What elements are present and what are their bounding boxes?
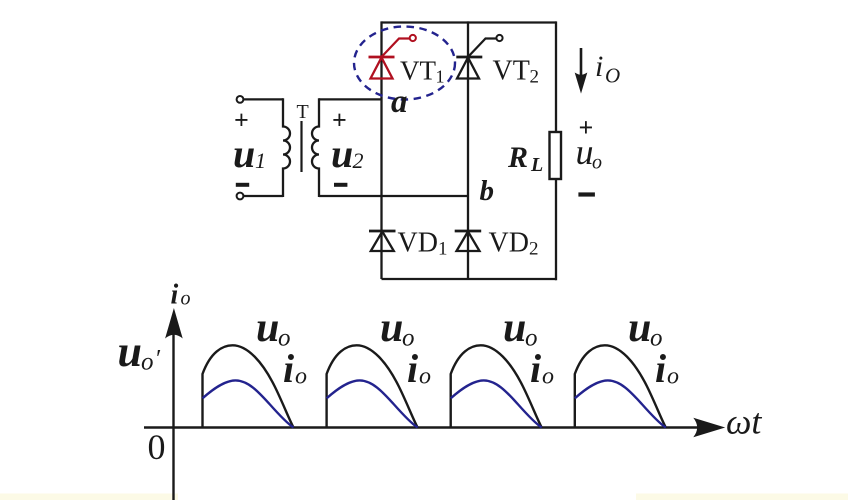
svg-text:1: 1 bbox=[255, 148, 266, 173]
wire: secondary top lead to node a bbox=[319, 98, 382, 100]
svg-text:u: u bbox=[503, 305, 526, 351]
waveform pulse 2: uo curve (black) bbox=[327, 345, 418, 427]
wire: right rail bbox=[555, 21, 557, 280]
svg-text:′: ′ bbox=[155, 346, 161, 373]
svg-text:L: L bbox=[530, 154, 543, 176]
waveform: horizontal axis arrowhead bbox=[693, 418, 725, 437]
svg-text:1: 1 bbox=[438, 239, 448, 260]
wire: bridge right leg (node b line) bbox=[467, 21, 469, 279]
waveform pulse 4: io curve (blue) bbox=[575, 380, 666, 427]
diode VD2 bbox=[455, 231, 482, 251]
label VT1 bbox=[400, 56, 445, 87]
label RL bbox=[507, 141, 543, 176]
svg-text:2: 2 bbox=[529, 239, 539, 260]
svg-text:i: i bbox=[530, 346, 541, 391]
svg-text:u: u bbox=[256, 305, 279, 351]
svg-text:ωt: ωt bbox=[726, 402, 762, 442]
label VD1 bbox=[398, 228, 448, 260]
waveform pulse 3: uo curve (black) bbox=[451, 345, 542, 427]
label u1 bbox=[233, 131, 266, 176]
label io (axis) bbox=[171, 280, 191, 311]
svg-text:u: u bbox=[233, 131, 255, 176]
svg-text:u: u bbox=[118, 327, 142, 376]
svg-text:2: 2 bbox=[530, 67, 540, 88]
svg-text:i: i bbox=[171, 280, 179, 311]
transformer T primary winding bbox=[283, 98, 290, 197]
transformer T primary terminal circle (bottom) bbox=[237, 193, 244, 200]
svg-text:0: 0 bbox=[148, 427, 166, 467]
svg-text:i: i bbox=[283, 346, 294, 391]
svg-text:o: o bbox=[542, 364, 554, 390]
svg-text:VT: VT bbox=[400, 56, 436, 86]
svg-text:i: i bbox=[407, 346, 418, 391]
arrow iO (output current) bbox=[576, 48, 587, 92]
wire: bridge left leg (node a line) bbox=[380, 21, 382, 279]
label io (pulse 1) bbox=[283, 346, 307, 391]
transformer T secondary winding bbox=[312, 98, 319, 197]
wire: secondary bottom lead to node b bbox=[319, 195, 468, 197]
svg-text:VD: VD bbox=[489, 228, 529, 259]
svg-text:u: u bbox=[576, 132, 594, 172]
svg-text:i: i bbox=[595, 50, 603, 83]
svg-text:u: u bbox=[628, 305, 651, 351]
thyristor VT2 bbox=[456, 35, 502, 79]
transformer core bbox=[300, 121, 302, 172]
label uo (pulse 1) bbox=[256, 305, 291, 352]
waveform pulse 3: io curve (blue) bbox=[451, 380, 542, 427]
svg-text:a: a bbox=[391, 84, 408, 120]
svg-text:T: T bbox=[297, 101, 309, 123]
transformer T primary terminal circle (top) bbox=[237, 96, 244, 103]
svg-text:o: o bbox=[181, 288, 191, 310]
svg-text:o: o bbox=[295, 364, 307, 390]
label minus (uo polarity) bbox=[578, 192, 595, 196]
label uo (pulse 3) bbox=[503, 305, 538, 352]
svg-text:o: o bbox=[592, 152, 602, 174]
label VT2 bbox=[493, 56, 540, 88]
label io (pulse 2) bbox=[407, 346, 431, 391]
svg-text:o: o bbox=[141, 349, 154, 376]
wire: bottom bus bbox=[382, 278, 557, 280]
waveform pulse 4: uo curve (black) bbox=[575, 345, 666, 427]
label uo' (left of axis) bbox=[118, 327, 161, 376]
waveform: horizontal axis (wt axis) bbox=[144, 426, 700, 428]
label u2 bbox=[331, 131, 364, 176]
thyristor VT1 (red) bbox=[369, 35, 416, 79]
waveform pulse 1: io curve (blue) bbox=[203, 380, 294, 427]
wire: primary top lead bbox=[243, 98, 283, 100]
highlight ellipse around VT1 (blue dashed) bbox=[354, 27, 455, 100]
waveform pulse 2: io curve (blue) bbox=[327, 380, 418, 427]
svg-text:2: 2 bbox=[353, 148, 364, 173]
svg-text:VD: VD bbox=[398, 228, 438, 259]
svg-text:u: u bbox=[380, 305, 403, 351]
svg-text:b: b bbox=[480, 175, 495, 207]
waveform: vertical axis arrowhead bbox=[165, 308, 183, 339]
label io (pulse 4) bbox=[655, 346, 679, 391]
svg-text:o: o bbox=[667, 364, 679, 390]
svg-text:u: u bbox=[331, 131, 353, 176]
label uo (pulse 2) bbox=[380, 305, 415, 352]
label minus (u1 polarity) bbox=[236, 183, 249, 187]
label VD2 bbox=[489, 228, 539, 260]
svg-text:VT: VT bbox=[493, 56, 530, 87]
label iO bbox=[595, 50, 620, 88]
svg-text:o: o bbox=[419, 364, 431, 390]
waveform pulse 1: uo curve (black) bbox=[203, 345, 294, 427]
label io (pulse 3) bbox=[530, 346, 554, 391]
wire: top bus bbox=[382, 21, 557, 23]
waveform: vertical axis (io axis) bbox=[172, 330, 174, 500]
diode VD1 bbox=[369, 231, 396, 251]
svg-text:i: i bbox=[655, 346, 666, 391]
svg-text:1: 1 bbox=[436, 67, 445, 87]
resistor RL (load) bbox=[550, 132, 562, 179]
svg-text:O: O bbox=[605, 64, 620, 88]
label uo (output voltage) bbox=[576, 132, 603, 174]
label minus (u2 polarity) bbox=[334, 183, 347, 187]
svg-text:R: R bbox=[507, 141, 528, 174]
label uo (pulse 4) bbox=[628, 305, 663, 352]
wire: primary bottom lead bbox=[243, 195, 283, 197]
